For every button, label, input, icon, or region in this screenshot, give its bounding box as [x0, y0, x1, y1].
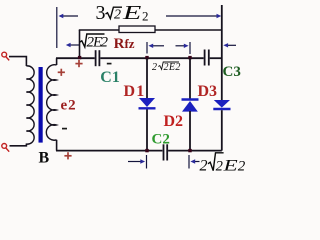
- node dot top D1: [145, 56, 148, 59]
- bottom rail wire (right of C2): [168, 150, 222, 152]
- svg-text:D1: D1: [124, 83, 146, 100]
- top rail wire (C1 to C3): [100, 57, 203, 59]
- node dot bottom D2: [188, 149, 191, 152]
- svg-text:2: 2: [101, 35, 109, 51]
- svg-text:2: 2: [238, 159, 246, 174]
- diode D2 branch lower wire: [189, 111, 191, 151]
- svg-text:C1: C1: [100, 69, 120, 86]
- svg-text:B: B: [39, 150, 50, 167]
- svg-text:e2: e2: [61, 98, 77, 114]
- diode D1 (points down): [139, 98, 155, 107]
- capacitor C2 plates: [163, 144, 165, 160]
- svg-text:C2: C2: [152, 132, 170, 148]
- wire: resistor wire left segment: [79, 29, 119, 31]
- svg-text:C3: C3: [223, 64, 241, 80]
- right rail vertical wire (D3 to bottom rail): [221, 110, 223, 150]
- resistor Rfz body: [119, 26, 155, 33]
- top rail wire (right of C3): [210, 57, 222, 59]
- wire: resistor wire right segment: [155, 29, 222, 31]
- svg-text:3: 3: [96, 2, 106, 24]
- bottom dimension tick at D1: [146, 155, 148, 169]
- right rail vertical wire (top tick to D3): [221, 5, 223, 101]
- bottom dimension arrow left (points right into tick): [128, 159, 145, 163]
- svg-text:2: 2: [114, 8, 121, 23]
- capacitor C1 plates: [95, 50, 97, 66]
- svg-text:2E2: 2E2: [164, 62, 181, 73]
- label √2E2: [80, 34, 109, 51]
- dimension arrow 3√2E2 left: [59, 14, 79, 18]
- wire: primary top lead: [9, 57, 26, 66]
- wire: secondary top lead: [56, 58, 58, 65]
- plus mark bottom left output: [64, 152, 71, 159]
- bottom dimension tick at D2: [188, 155, 190, 169]
- bottom dimension arrow right (points left into tick): [190, 159, 199, 163]
- label 3√2E2: [96, 1, 149, 24]
- wire: secondary bottom lead: [56, 140, 58, 151]
- plus mark at C1 left: [75, 60, 82, 67]
- dimension arrow 3√2E2 right: [166, 14, 221, 18]
- diode D2 branch upper wire: [189, 58, 191, 99]
- transformer primary winding: [26, 66, 34, 144]
- node dot top D2: [188, 56, 191, 59]
- wire: primary bottom lead: [10, 144, 27, 146]
- svg-text:2: 2: [200, 158, 208, 174]
- minus mark at C1 right: [107, 63, 112, 65]
- mid dimension arrow right (points right): [176, 44, 189, 48]
- svg-text:E: E: [222, 157, 237, 173]
- diode D1 branch upper wire: [146, 58, 148, 98]
- svg-text:Rfz: Rfz: [114, 36, 135, 52]
- diode D2 (points up): [182, 98, 199, 100]
- transformer primary terminal top: [2, 52, 7, 57]
- mid dimension tick at D2: [189, 42, 191, 54]
- wire: left branch vertical from resistor wire down to node A: [79, 30, 81, 58]
- node A dot: [78, 56, 81, 59]
- diode D1 branch lower wire: [146, 110, 148, 151]
- transformer primary terminal bottom: [2, 144, 7, 149]
- transformer secondary winding: [46, 65, 56, 141]
- small label 2√2E2: [152, 62, 181, 73]
- dimension arrow at right rail (points left): [223, 43, 236, 47]
- capacitor C3 plates: [204, 50, 206, 66]
- label 2√2E2 bottom: [200, 153, 246, 175]
- minus mark secondary bottom: [62, 128, 67, 130]
- svg-text:D3: D3: [198, 83, 218, 100]
- plus mark secondary top: [58, 69, 65, 76]
- mid dimension arrow left (points left): [148, 44, 164, 48]
- mid dimension tick at D1: [146, 42, 148, 54]
- svg-text:2: 2: [152, 62, 157, 73]
- dimension arrow √2E2 (points left toward tick): [66, 43, 79, 47]
- dimension tick left (3√2E2 reference): [56, 7, 58, 48]
- top rail wire (left of C1): [56, 57, 95, 59]
- transformer core B: [39, 67, 43, 143]
- bottom rail wire (left of C2): [56, 150, 162, 152]
- svg-text:2: 2: [142, 9, 149, 24]
- svg-text:2: 2: [216, 158, 223, 173]
- svg-text:E: E: [122, 1, 142, 24]
- svg-text:D2: D2: [164, 113, 184, 130]
- diode D3 (points down): [214, 100, 230, 108]
- node dot bottom D1: [145, 149, 148, 152]
